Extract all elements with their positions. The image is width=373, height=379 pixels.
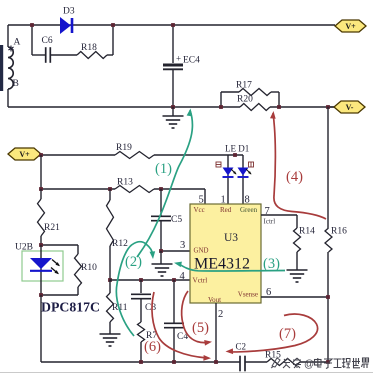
ground below R11 [100, 334, 121, 346]
annotation arrow 1 [137, 108, 193, 257]
svg-text:1: 1 [221, 195, 226, 206]
svg-text:8: 8 [245, 195, 250, 206]
svg-text:(6): (6) [144, 339, 161, 355]
junction R12 top [108, 187, 112, 191]
annotation text 1 [155, 161, 172, 177]
wire R13 row left [41, 188, 115, 190]
label R20 [237, 95, 253, 105]
wire V+ row left [41, 154, 115, 156]
wire snubber right rise [107, 25, 113, 55]
svg-text:(2): (2) [125, 254, 142, 270]
label DPC817C [41, 300, 100, 315]
wire V+ row right [154, 154, 243, 156]
power port V+ top [335, 20, 366, 32]
pin name Green [240, 206, 258, 214]
label U3 [224, 232, 238, 244]
resistor R12 stem [109, 189, 111, 200]
annotation arrow 5 [182, 291, 213, 346]
pin name Vsense [238, 291, 258, 299]
svg-text:V+: V+ [345, 22, 356, 31]
annotation text 5 [192, 320, 209, 336]
wire inductor top stem [7, 25, 9, 47]
annotation text 6 [144, 339, 161, 355]
svg-text:(5): (5) [192, 320, 209, 336]
label C4 [177, 332, 188, 342]
junction V+ port [39, 153, 43, 157]
svg-text:DPC817C: DPC817C [41, 300, 100, 315]
svg-text:U3: U3 [224, 232, 238, 244]
annotation text 2 [125, 254, 142, 270]
svg-text:D3: D3 [63, 7, 75, 17]
svg-text:R17: R17 [236, 81, 252, 91]
label C5 [171, 215, 182, 225]
svg-text:C2: C2 [236, 342, 247, 352]
svg-text:R13: R13 [117, 178, 133, 188]
led D1 red [223, 168, 238, 178]
ground below EC4 [163, 107, 184, 128]
resistor R11 [107, 293, 114, 322]
label R13 [117, 178, 133, 188]
svg-text:7: 7 [265, 206, 270, 217]
resistor R20 [240, 104, 270, 111]
page edge line [0, 372, 373, 374]
power port V- [334, 101, 365, 113]
resistor R12 [107, 200, 114, 246]
svg-text:B: B [13, 79, 19, 89]
junction R12 R11 [108, 278, 112, 282]
resistor R15 [267, 359, 300, 366]
led U2B [30, 258, 61, 276]
svg-text:+: + [176, 54, 181, 64]
wire U2B led vertical [40, 245, 42, 295]
pin 8 number [245, 195, 250, 206]
junction LED top [233, 153, 237, 157]
wire C2 to R15 [245, 361, 267, 363]
svg-text:GND: GND [194, 247, 209, 254]
label R18 [81, 43, 97, 53]
svg-text:ME4312: ME4312 [194, 256, 250, 273]
pin name Red [220, 206, 232, 214]
annotation text 7 [279, 326, 296, 342]
wire R13 row right [154, 188, 205, 190]
wire C3 stem [140, 280, 142, 293]
wire LED right branch [242, 155, 244, 204]
annotation arrow 7 [225, 314, 317, 354]
pin name GND [194, 247, 209, 254]
junction R17R20 left [219, 105, 223, 109]
power port V+ left [8, 148, 41, 160]
wire top rail [8, 24, 335, 26]
watermark [271, 358, 369, 370]
label U2B [15, 243, 33, 253]
ground near pin3 [152, 251, 173, 276]
svg-text:4: 4 [180, 271, 186, 282]
svg-text:6: 6 [266, 287, 271, 298]
wire R17 branch [221, 92, 279, 107]
svg-text:Red: Red [220, 206, 232, 214]
svg-text:R20: R20 [237, 95, 253, 105]
wire R14 to ground [296, 252, 298, 270]
junction EC4 bottom [171, 105, 175, 109]
label R11 [112, 303, 128, 313]
wire EC4 bottom stem [172, 70, 174, 107]
phase dot * [8, 46, 13, 52]
label R12 [112, 239, 128, 249]
svg-text:(3): (3) [263, 256, 280, 272]
label ME4312 [194, 256, 250, 273]
svg-text:R10: R10 [81, 263, 97, 273]
wire U2B top row [41, 244, 78, 246]
wire second rail right [270, 106, 335, 108]
label R16 [331, 227, 347, 237]
wire C5 top stem [160, 189, 162, 216]
label R10 [81, 263, 97, 273]
svg-text:Vsense: Vsense [238, 291, 258, 299]
capacitor EC4 [163, 64, 183, 70]
inductor L1 winding A-B [0, 45, 13, 91]
pin 2 wire [215, 303, 217, 362]
svg-text:Ictrl: Ictrl [264, 218, 276, 226]
label R15 [265, 351, 281, 361]
label D3 [63, 7, 75, 17]
pin 1 number [221, 195, 226, 206]
resistor R10 top wire [77, 245, 79, 254]
svg-text:5: 5 [199, 195, 204, 206]
led D1 green [238, 168, 253, 178]
junction C4 rail [172, 360, 176, 364]
junction pin3 ground [159, 249, 163, 253]
svg-text:A: A [14, 38, 21, 48]
wire R21 bottom stem [40, 236, 42, 245]
junction U2B bottom [39, 293, 43, 297]
label A [14, 38, 21, 48]
svg-text:(1): (1) [155, 161, 172, 177]
label R19 [116, 143, 132, 153]
resistor R13 [115, 186, 154, 193]
svg-text:R18: R18 [81, 43, 97, 53]
annotation arrow 2 [116, 242, 155, 336]
label C6 [42, 36, 53, 46]
wire R14 stem [296, 215, 298, 228]
svg-text:Vctrl: Vctrl [193, 277, 208, 285]
resistor R21 stem top [40, 189, 42, 199]
svg-text:(4): (4) [286, 169, 303, 185]
junction pin6 R16 [326, 295, 330, 299]
wire V+ vertical [40, 155, 42, 189]
label R7 [146, 331, 157, 341]
junction EC4 top [171, 23, 175, 27]
wire pin3 [161, 250, 190, 252]
wire R7 to rail [140, 342, 142, 362]
resistor R7 [138, 322, 145, 342]
resistor R19 [115, 152, 154, 159]
wire C4 to rail [173, 328, 175, 362]
wire C3 to R7 [140, 299, 142, 322]
svg-text:C6: C6 [42, 36, 53, 46]
capacitor C2 [240, 356, 245, 372]
wire snubber left drop [32, 25, 46, 55]
svg-text:3: 3 [180, 240, 185, 251]
junction C5 top [159, 187, 163, 191]
svg-text:Vcc: Vcc [194, 206, 205, 214]
svg-text:EC4: EC4 [183, 56, 200, 66]
wire C5 bottom stem [160, 221, 162, 251]
svg-text:2: 2 [218, 309, 223, 320]
label R14 [299, 227, 315, 237]
resistor R17 [239, 89, 271, 96]
wire R16 top stem [327, 107, 329, 228]
annotation arrow 6 [152, 292, 211, 361]
label B [13, 79, 19, 89]
annotation text 3 [263, 256, 280, 272]
junction U2B top [39, 243, 43, 247]
pin 6 number [266, 287, 271, 298]
svg-text:V+: V+ [19, 150, 30, 159]
wire second rail left [8, 106, 240, 108]
svg-text:LE D1: LE D1 [225, 144, 249, 154]
label red char [216, 162, 221, 167]
wire left vertical to rail [40, 295, 42, 362]
capacitor C5 [151, 216, 171, 220]
annotation text 4 [286, 169, 303, 185]
junction R7 rail [139, 360, 143, 364]
resistor R21 [38, 199, 45, 236]
wire inductor bottom stem [7, 89, 9, 107]
wire pin5 drop [204, 189, 206, 204]
pin 2 number [218, 309, 223, 320]
resistor R16 [325, 228, 332, 252]
wire R11 to ground [109, 322, 111, 334]
svg-text:R14: R14 [299, 227, 315, 237]
wire C6 to R18 [50, 54, 77, 56]
svg-text:(7): (7) [279, 326, 296, 342]
annotation arrow 4 [270, 111, 326, 219]
junction pin2 rail [214, 360, 218, 364]
pin name Vcc [194, 206, 205, 214]
wire LED left branch [227, 155, 229, 204]
capacitor C3 [131, 294, 151, 298]
svg-text:V-: V- [346, 103, 354, 112]
junction snubber right [111, 23, 115, 27]
wire R12 bottom stem [109, 246, 111, 280]
resistor R10 [75, 254, 82, 287]
capacitor C6 [46, 47, 51, 63]
svg-text:@: @ [304, 359, 314, 370]
ic U3 ME4312 body [190, 204, 261, 303]
label C2 [236, 342, 247, 352]
pin 7 number [265, 206, 270, 217]
wire R16 bottom to rail [327, 252, 329, 362]
svg-text:R12: R12 [112, 239, 128, 249]
svg-text:Vout: Vout [208, 296, 221, 304]
svg-text:R19: R19 [116, 143, 132, 153]
wire bottom rail left [41, 361, 240, 363]
pin name Vctrl [193, 277, 208, 285]
pin name Vout [208, 296, 221, 304]
resistor R18 [77, 52, 107, 59]
resistor R11 stem [109, 280, 111, 293]
junction V- rail [326, 105, 330, 109]
junction R13 left [39, 187, 43, 191]
junction snubber left [30, 23, 34, 27]
label C3 [145, 303, 156, 313]
label green char [249, 162, 254, 167]
svg-text:C5: C5 [171, 215, 182, 225]
junction C3 top [139, 278, 143, 282]
label EC4 plus [176, 54, 181, 64]
svg-text:Green: Green [240, 206, 258, 214]
pin 6 wire [261, 296, 328, 298]
junction rail right [326, 360, 330, 364]
wire C4 stem [173, 280, 175, 323]
pin 5 number [199, 195, 204, 206]
diode D3 [61, 18, 73, 33]
ground below R14 [287, 270, 308, 282]
junction C4 top [172, 278, 176, 282]
svg-text:C3: C3 [145, 303, 156, 313]
label LE D1 [225, 144, 249, 154]
pin 3 number [180, 240, 185, 251]
pin name Ictrl [264, 218, 276, 226]
pin 7 wire [261, 214, 297, 216]
label R17 [236, 81, 252, 91]
wire R10 bottom [41, 287, 78, 295]
label EC4 [183, 56, 200, 66]
annotation arrow 3 [173, 260, 285, 271]
resistor R14 [294, 228, 301, 252]
pin 4 number [180, 271, 186, 282]
wire R15 to right vertical [300, 361, 328, 363]
capacitor C4 [164, 323, 184, 327]
wire pin4 row [110, 279, 190, 281]
wire to V- port [328, 106, 334, 108]
svg-text:R16: R16 [331, 227, 347, 237]
junction R17R20 right [277, 105, 281, 109]
wire EC4 top stem [172, 25, 174, 63]
optocoupler U2B box [22, 251, 63, 281]
label R21 [44, 223, 60, 233]
svg-text:R21: R21 [44, 223, 60, 233]
